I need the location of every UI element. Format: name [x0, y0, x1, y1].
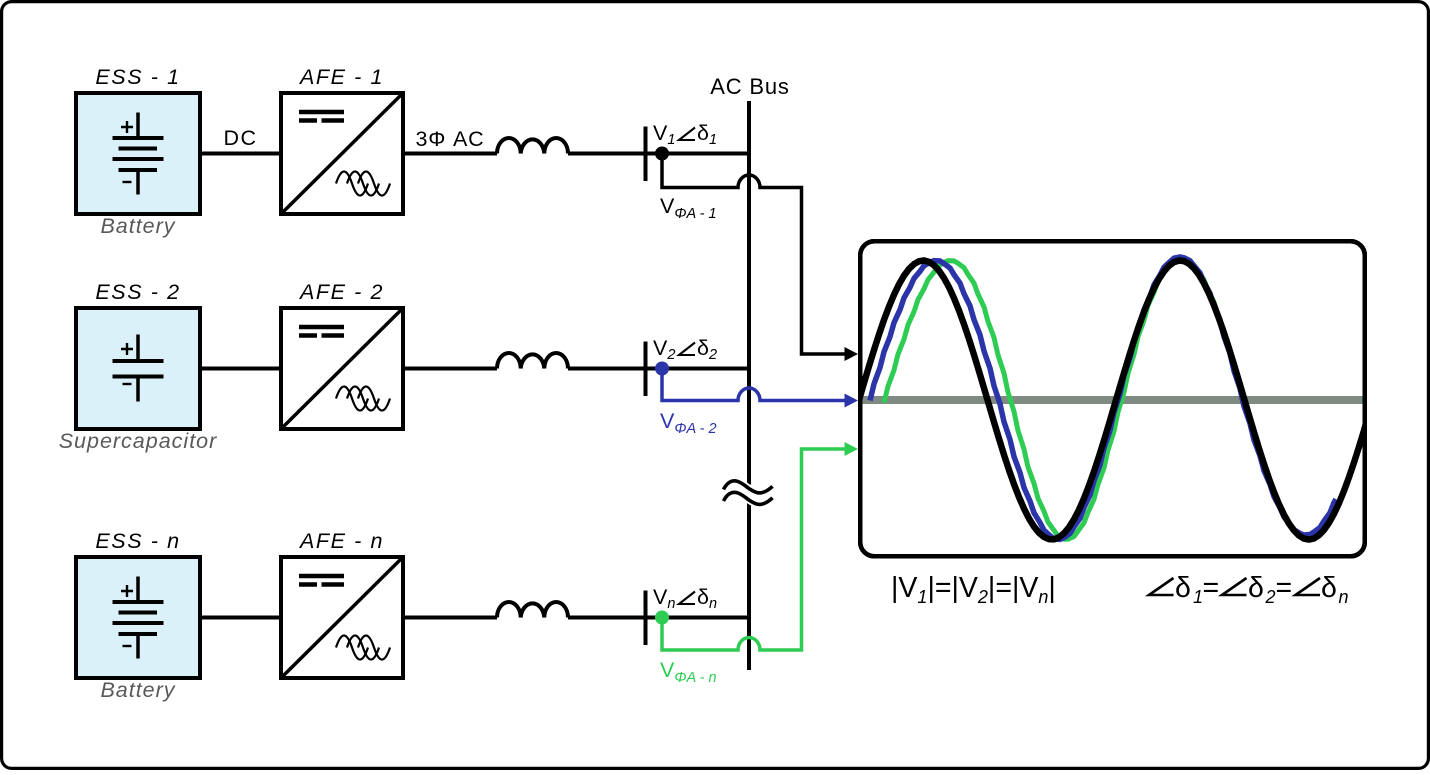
node V1 dot	[655, 147, 669, 161]
svg-text:AFE - 1: AFE - 1	[298, 65, 384, 89]
svg-text:ESS - n: ESS - n	[95, 529, 180, 553]
node V2 dot	[655, 362, 669, 376]
battery symbol ESS-1	[136, 113, 140, 139]
wire inductor L1 to AC bus	[568, 152, 749, 156]
svg-text:AC Bus: AC Bus	[710, 74, 789, 99]
svg-text:DC: DC	[223, 126, 257, 150]
svg-text:δ: δ	[1248, 572, 1264, 604]
svg-text:Battery: Battery	[100, 214, 175, 238]
green sine wave Vn	[884, 259, 1312, 540]
svg-text:=: =	[1203, 572, 1220, 604]
bus break symbol (double wave)	[746, 485, 752, 502]
AC Bus line	[747, 101, 751, 670]
inductor L1	[497, 138, 568, 154]
svg-text:ESS - 2: ESS - 2	[95, 280, 180, 304]
AFE-n converter box	[281, 557, 403, 678]
node Vn dot	[655, 611, 669, 625]
battery symbol ESS-n	[136, 577, 140, 603]
inductor Ln	[497, 602, 568, 618]
plot box border redraw	[860, 241, 1365, 556]
measurement wire V_phA-2 (blue) with hop over bus	[662, 369, 845, 401]
black sine wave V1	[859, 261, 1367, 540]
wire ESS-n to AFE-n	[200, 616, 281, 620]
svg-text:n: n	[1339, 587, 1349, 607]
terminal tick row n	[644, 591, 648, 646]
wire ESS-2 to AFE-2	[200, 367, 281, 371]
ESS-n box	[76, 557, 200, 678]
terminal tick row 2	[644, 342, 648, 397]
arrowhead V_phA-1	[845, 347, 859, 361]
svg-text:|V1|=|V2|=|Vn|: |V1|=|V2|=|Vn|	[891, 572, 1056, 607]
arrowhead V_phA-n	[845, 442, 859, 456]
svg-text:Battery: Battery	[100, 678, 175, 702]
svg-text:=: =	[1276, 572, 1293, 604]
wire inductor L2 to AC bus	[568, 367, 749, 371]
terminal tick row 1	[644, 127, 648, 182]
svg-text:δ: δ	[1175, 572, 1191, 604]
ESS-2 box	[76, 308, 200, 429]
caption angle delta1 = angle delta2 = angle deltan	[1149, 578, 1174, 595]
wire inductor Ln to AC bus	[568, 616, 749, 620]
supercapacitor symbol ESS-2	[136, 335, 140, 362]
wire AFE-n to inductor Ln	[403, 616, 497, 620]
inductor L2	[497, 353, 568, 369]
wire AFE-2 to inductor L2	[403, 367, 497, 371]
blue sine wave V2	[870, 257, 1336, 540]
wire ESS-1 to AFE-1	[200, 152, 281, 156]
ESS-1 box	[76, 93, 200, 214]
svg-text:ESS - 1: ESS - 1	[95, 65, 180, 89]
svg-text:AFE - 2: AFE - 2	[298, 280, 384, 304]
svg-text:Supercapacitor: Supercapacitor	[59, 429, 218, 453]
AFE-2 converter box	[281, 308, 403, 429]
svg-text:3Φ AC: 3Φ AC	[416, 127, 485, 151]
wire AFE-1 to inductor L1	[403, 152, 497, 156]
svg-text:δ: δ	[1321, 572, 1337, 604]
AFE-1 converter box	[281, 93, 403, 214]
arrowhead V_phA-2	[845, 394, 859, 408]
svg-text:1: 1	[1193, 587, 1203, 607]
measurement wire V_phA-n (green) with hop over bus	[662, 449, 845, 650]
gray zero axis line	[860, 396, 1364, 404]
measurement wire V_phA-1 (black) with hop over bus	[662, 154, 845, 355]
svg-text:AFE - n: AFE - n	[298, 529, 384, 553]
svg-text:2: 2	[1265, 587, 1276, 607]
waveform plot box	[860, 241, 1365, 556]
